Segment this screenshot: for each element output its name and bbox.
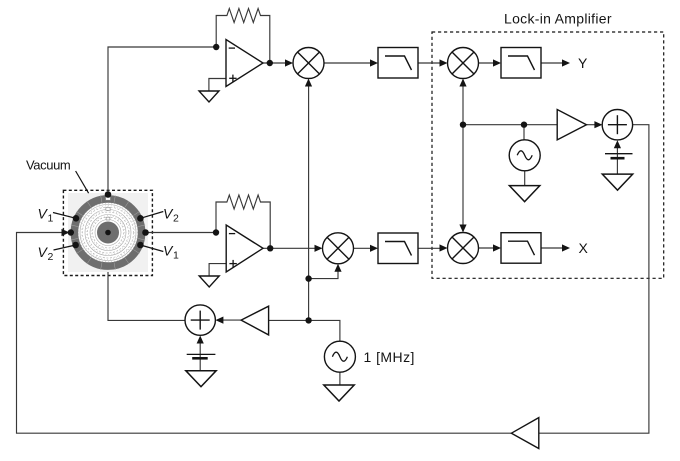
svg-text:Lock-in Amplifier: Lock-in Amplifier — [504, 11, 612, 27]
svg-text:2: 2 — [173, 213, 179, 225]
svg-text:1: 1 — [48, 213, 54, 225]
svg-text:1: 1 — [173, 250, 179, 262]
svg-text:X: X — [579, 240, 589, 256]
svg-text:Vacuum: Vacuum — [26, 158, 70, 173]
svg-text:1 [MHz]: 1 [MHz] — [364, 349, 415, 365]
svg-text:Y: Y — [578, 55, 588, 71]
svg-text:2: 2 — [48, 251, 54, 263]
